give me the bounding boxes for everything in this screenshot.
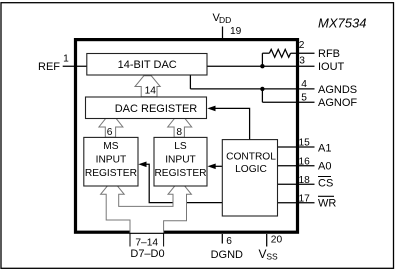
svg-text:3: 3 <box>299 55 305 66</box>
svg-text:18: 18 <box>299 175 311 186</box>
svg-text:15: 15 <box>299 138 311 149</box>
svg-text:INPUT: INPUT <box>165 155 196 166</box>
svg-text:CS: CS <box>318 178 333 190</box>
svg-text:6: 6 <box>107 127 113 138</box>
svg-text:A1: A1 <box>318 143 331 155</box>
svg-text:CONTROL: CONTROL <box>226 152 276 163</box>
svg-text:AGNDS: AGNDS <box>318 84 357 96</box>
svg-text:DAC REGISTER: DAC REGISTER <box>115 103 198 115</box>
svg-text:SS: SS <box>266 252 278 262</box>
svg-text:17: 17 <box>299 193 311 204</box>
svg-text:2: 2 <box>299 40 305 51</box>
svg-text:14: 14 <box>145 86 157 97</box>
svg-text:A0: A0 <box>318 161 331 173</box>
svg-text:19: 19 <box>230 26 242 37</box>
svg-text:LS: LS <box>174 141 187 152</box>
svg-text:4: 4 <box>301 79 307 90</box>
svg-text:REF: REF <box>38 61 60 73</box>
svg-text:AGNOF: AGNOF <box>318 97 357 109</box>
svg-text:MS: MS <box>103 141 118 152</box>
svg-text:IOUT: IOUT <box>318 61 345 73</box>
svg-text:DD: DD <box>219 15 231 25</box>
svg-text:1: 1 <box>63 53 69 64</box>
svg-text:REGISTER: REGISTER <box>154 168 206 179</box>
svg-text:6: 6 <box>226 236 232 247</box>
svg-text:MX7534: MX7534 <box>318 16 366 31</box>
svg-text:RFB: RFB <box>318 48 340 60</box>
svg-text:REGISTER: REGISTER <box>85 168 137 179</box>
svg-text:LOGIC: LOGIC <box>235 164 267 175</box>
svg-text:16: 16 <box>299 156 311 167</box>
svg-text:7–14: 7–14 <box>135 237 158 248</box>
svg-text:8: 8 <box>176 127 182 138</box>
svg-text:20: 20 <box>271 235 283 246</box>
svg-text:INPUT: INPUT <box>96 155 127 166</box>
svg-text:V: V <box>259 247 267 261</box>
svg-text:WR: WR <box>318 197 336 209</box>
svg-text:D7–D0: D7–D0 <box>130 248 164 260</box>
svg-text:14-BIT DAC: 14-BIT DAC <box>118 59 177 71</box>
svg-text:5: 5 <box>301 92 307 103</box>
svg-text:DGND: DGND <box>211 249 243 261</box>
